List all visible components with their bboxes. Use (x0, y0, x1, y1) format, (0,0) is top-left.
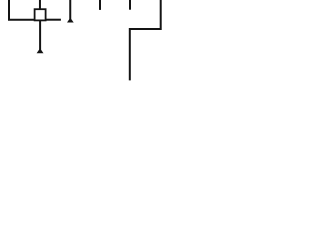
wire (46, 19, 61, 21)
wire (129, 0, 131, 10)
wire (99, 0, 101, 10)
wire (9, 0, 35, 20)
wire (69, 0, 71, 21)
arrowhead (37, 48, 44, 53)
arrowhead (67, 18, 74, 23)
wire (39, 20, 41, 49)
wire (130, 0, 161, 80)
wire (39, 0, 41, 9)
component box (35, 9, 46, 20)
